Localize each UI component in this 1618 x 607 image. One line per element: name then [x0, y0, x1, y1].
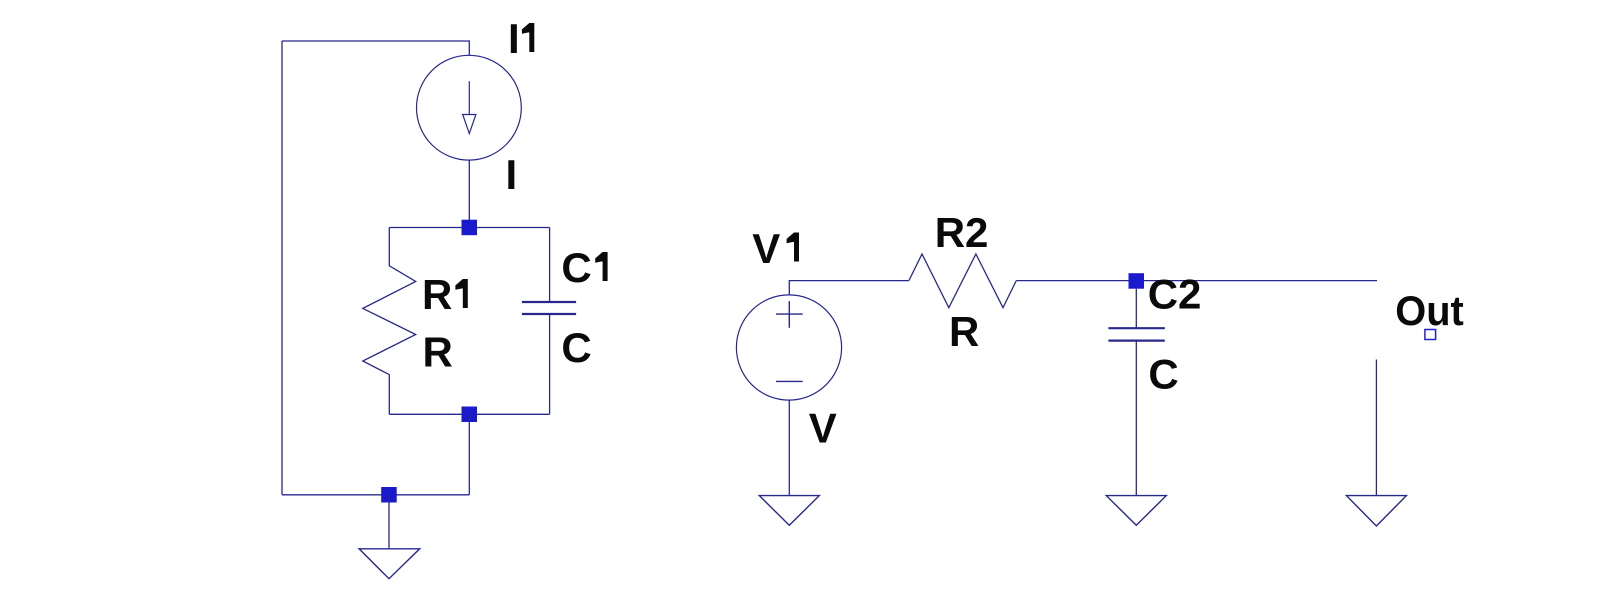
wire V1 top to resistor [789, 281, 909, 295]
wire resistor to out [1016, 280, 1377, 282]
node bottom-left junction [381, 487, 397, 503]
svg-text:C: C [1148, 350, 1178, 397]
resistor R2 [909, 254, 1016, 308]
ground left [359, 549, 420, 579]
svg-text:I: I [508, 15, 520, 62]
svg-text:R: R [423, 329, 453, 376]
node bottom junction [462, 407, 478, 423]
svg-text:I: I [506, 151, 518, 198]
capacitor C2 [1135, 289, 1137, 328]
svg-text:C: C [561, 244, 591, 291]
svg-text:V: V [752, 225, 780, 272]
wire ground stub [388, 495, 390, 549]
wire V1 bottom [788, 400, 790, 495]
wire top-left loop [282, 41, 469, 55]
wire dangling ground [1375, 360, 1377, 496]
node top junction [462, 220, 478, 236]
wire RC bottom rail [389, 413, 549, 415]
svg-text:R: R [422, 271, 452, 318]
svg-text:Out: Out [1395, 287, 1464, 334]
svg-text:V: V [809, 405, 837, 452]
wire bottom horizontal [282, 494, 469, 496]
wire RC top rail [389, 227, 549, 229]
wire left vertical [281, 41, 283, 495]
ground under V1 [759, 496, 819, 526]
ground under C2 [1106, 496, 1166, 526]
svg-text:R2: R2 [935, 209, 989, 256]
port square Out [1425, 330, 1436, 340]
voltage source V1 [736, 295, 841, 400]
node C2 junction [1129, 273, 1145, 289]
svg-text:C2: C2 [1148, 271, 1202, 318]
ground right [1346, 496, 1406, 526]
wire node to bottom rail [468, 414, 470, 495]
capacitor C1 [549, 228, 551, 302]
wire source to node [468, 160, 470, 227]
current source I1 [417, 55, 522, 160]
svg-text:C: C [561, 324, 591, 371]
resistor R1 [363, 228, 416, 415]
svg-text:R: R [949, 308, 979, 355]
